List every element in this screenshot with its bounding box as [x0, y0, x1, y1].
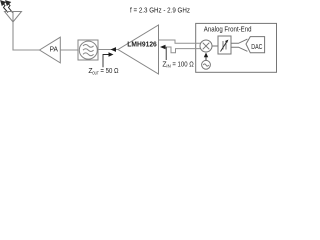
Zin callout leg — [165, 47, 167, 60]
antenna — [5, 12, 22, 51]
bandpass filter — [78, 40, 98, 60]
LO arrow into mixer — [204, 53, 208, 61]
Zout callout arrow — [103, 52, 114, 67]
Analog Front-End box — [196, 23, 277, 72]
svg-text:Analog Front-End: Analog Front-End — [204, 27, 252, 34]
svg-text:OUT: OUT — [92, 70, 99, 75]
RF radiation arrow 1 — [1, 1, 8, 13]
svg-text:LMH9126: LMH9126 — [127, 39, 157, 48]
differential wire minus — [165, 47, 201, 53]
signal direction arrow at amp output — [111, 47, 117, 52]
svg-text:PA: PA — [50, 47, 59, 54]
signal direction arrow at amp input — [160, 45, 166, 50]
svg-text:= 50 Ω: = 50 Ω — [100, 68, 118, 75]
differential wire plus — [159, 40, 201, 43]
RF radiation arrow 2 — [6, 1, 13, 13]
local oscillator — [202, 60, 211, 69]
svg-text:= 100 Ω: = 100 Ω — [172, 61, 193, 68]
svg-text:f = 2.3 GHz - 2.9 GHz: f = 2.3 GHz - 2.9 GHz — [130, 8, 190, 15]
mixer — [200, 40, 212, 52]
wire filter to LMH9126 — [98, 49, 118, 51]
svg-text:DAC: DAC — [251, 44, 262, 51]
wire mixer to VGA — [212, 45, 218, 47]
svg-text:IN: IN — [166, 64, 170, 69]
wire PA to filter — [60, 49, 78, 51]
VGA (variable attenuator) — [218, 36, 231, 54]
op-amp U1 LMH9126 — [118, 25, 159, 74]
DAC — [246, 37, 265, 53]
amplifier PA — [40, 37, 61, 63]
differential pair VGA to DAC — [231, 39, 247, 51]
wire antenna to PA — [13, 49, 40, 51]
